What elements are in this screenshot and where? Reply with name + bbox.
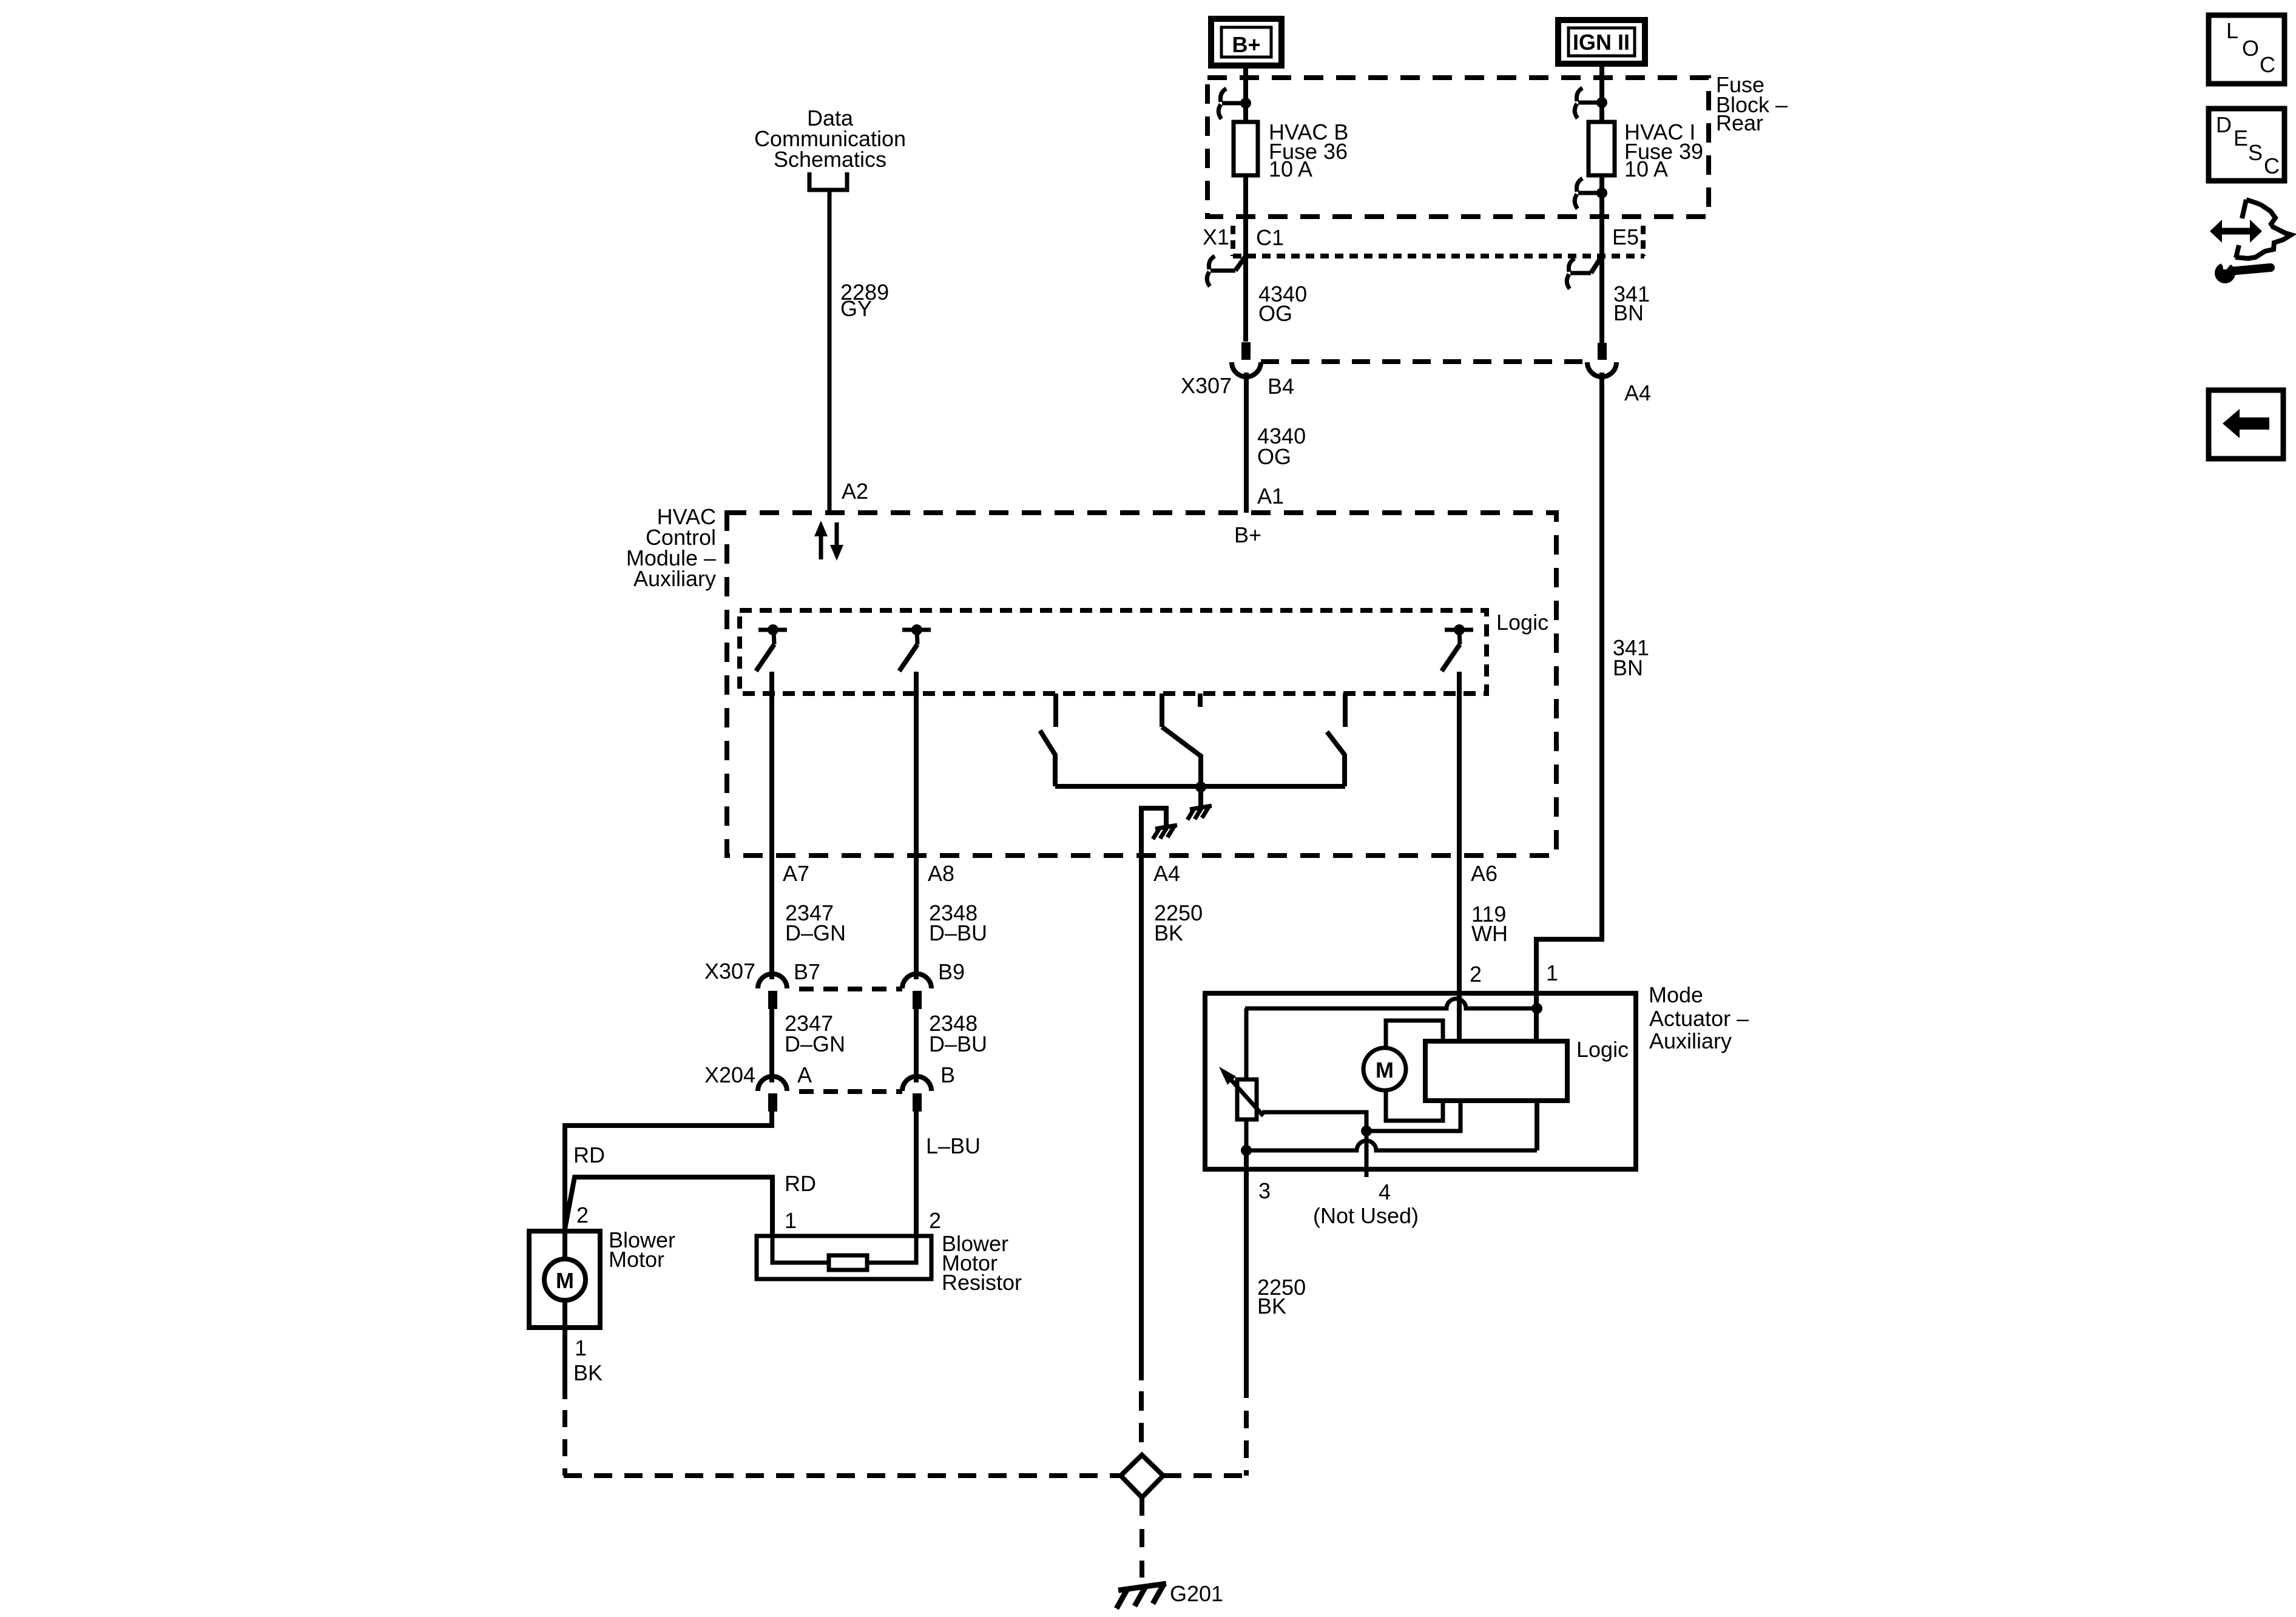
svg-text:IGN II: IGN II [1573, 30, 1630, 55]
svg-text:Auxiliary: Auxiliary [633, 566, 716, 591]
svg-text:3: 3 [1258, 1178, 1271, 1203]
svg-text:L–BU: L–BU [926, 1133, 981, 1158]
svg-text:BK: BK [1154, 920, 1183, 945]
svg-text:B+: B+ [1234, 522, 1261, 547]
svg-text:RD: RD [573, 1143, 605, 1167]
svg-text:Motor: Motor [609, 1247, 664, 1272]
svg-text:Actuator –: Actuator – [1649, 1006, 1749, 1031]
svg-text:C: C [2260, 52, 2275, 77]
svg-text:S: S [2248, 140, 2263, 165]
svg-text:GY: GY [840, 296, 872, 321]
svg-text:A2: A2 [842, 479, 868, 504]
svg-text:A6: A6 [1471, 861, 1497, 886]
svg-text:WH: WH [1471, 921, 1508, 946]
svg-text:10 A: 10 A [1624, 157, 1668, 181]
svg-text:X307: X307 [704, 959, 755, 984]
svg-text:A8: A8 [928, 861, 954, 886]
svg-text:2: 2 [929, 1208, 941, 1233]
svg-text:OG: OG [1257, 444, 1291, 469]
svg-text:A7: A7 [783, 861, 809, 886]
svg-text:O: O [2242, 36, 2259, 61]
svg-text:G201: G201 [1170, 1581, 1223, 1606]
svg-text:X204: X204 [704, 1062, 755, 1087]
svg-text:D–BU: D–BU [929, 920, 987, 945]
svg-text:Rear: Rear [1716, 110, 1763, 135]
svg-text:RD: RD [785, 1171, 816, 1196]
svg-text:OG: OG [1258, 301, 1292, 326]
svg-text:D–GN: D–GN [785, 1031, 845, 1056]
svg-text:B9: B9 [938, 959, 965, 984]
svg-text:BN: BN [1613, 655, 1643, 680]
svg-text:D–GN: D–GN [785, 920, 846, 945]
svg-text:2: 2 [576, 1203, 589, 1227]
svg-text:(Not Used): (Not Used) [1313, 1203, 1419, 1228]
svg-text:B4: B4 [1268, 374, 1294, 399]
svg-text:C: C [2264, 154, 2280, 178]
svg-text:2: 2 [1470, 962, 1482, 987]
svg-text:B: B [940, 1062, 955, 1087]
svg-text:A4: A4 [1624, 380, 1651, 405]
svg-text:A1: A1 [1257, 484, 1284, 508]
svg-text:BN: BN [1613, 300, 1644, 325]
svg-text:D: D [2216, 112, 2232, 137]
svg-text:Logic: Logic [1576, 1037, 1629, 1062]
svg-text:Auxiliary: Auxiliary [1649, 1028, 1732, 1053]
svg-text:1: 1 [575, 1335, 587, 1360]
svg-text:X307: X307 [1181, 373, 1232, 398]
svg-text:D–BU: D–BU [929, 1031, 987, 1056]
svg-text:BK: BK [573, 1360, 603, 1385]
svg-text:BK: BK [1257, 1294, 1286, 1318]
svg-text:Logic: Logic [1496, 610, 1548, 635]
svg-text:10 A: 10 A [1269, 157, 1312, 181]
svg-text:E: E [2234, 126, 2248, 150]
svg-text:L: L [2226, 18, 2238, 43]
svg-text:1: 1 [785, 1208, 797, 1233]
svg-text:M: M [1376, 1058, 1394, 1082]
svg-text:A: A [797, 1062, 812, 1087]
svg-text:M: M [556, 1268, 574, 1293]
svg-text:X1: X1 [1203, 224, 1229, 249]
svg-text:Mode: Mode [1649, 982, 1703, 1007]
svg-text:E5: E5 [1612, 224, 1639, 249]
svg-text:Schematics: Schematics [774, 147, 886, 172]
svg-text:B+: B+ [1232, 32, 1260, 57]
svg-text:A4: A4 [1153, 861, 1180, 886]
svg-text:B7: B7 [794, 959, 820, 984]
svg-text:1: 1 [1546, 960, 1558, 985]
svg-text:Resistor: Resistor [942, 1270, 1022, 1295]
svg-text:C1: C1 [1256, 225, 1284, 250]
svg-text:4: 4 [1379, 1180, 1391, 1204]
